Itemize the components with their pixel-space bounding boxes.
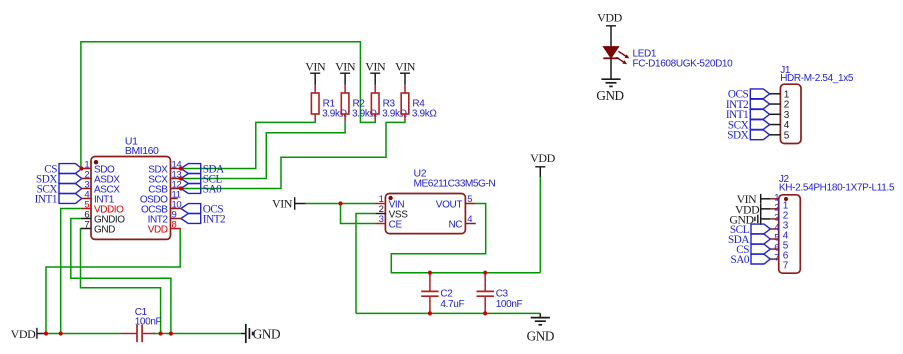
U2 pin 3 line (CE) (376, 223, 386, 225)
svg-text:HDR-M-2.54_1x5: HDR-M-2.54_1x5 (780, 73, 854, 84)
U1 pin 1 line (SDO) (81, 168, 91, 170)
U1 pin 3 line (ASCX) (81, 188, 91, 190)
voltage regulator U2 body (385, 194, 465, 234)
wire VIN port to U2 pin1 (306, 203, 376, 205)
J1 pin 2 line (770, 103, 781, 105)
LED light arrows (618, 51, 625, 56)
svg-text:BMI160: BMI160 (125, 145, 159, 157)
capacitor C3 (484, 273, 486, 292)
junction dot GND rail 1 (159, 331, 163, 335)
svg-text:INT2: INT2 (203, 213, 225, 225)
U1 pin 6 line (GNDIO) (81, 218, 91, 220)
ground symbol (under C3) (539, 313, 541, 317)
wire U2 VSS to GND rail (356, 214, 376, 314)
J2 pin 6 line (770, 248, 778, 250)
junction dot CS / U1 pin1 (79, 166, 83, 170)
J2 pin 1 port lead (761, 198, 771, 200)
svg-text:7: 7 (774, 253, 779, 264)
connector J1 body (780, 84, 801, 143)
U1 pin-1 marker dot (94, 160, 98, 164)
svg-text:7: 7 (783, 261, 789, 272)
junction dot C3 top (483, 271, 487, 275)
svg-text:7: 7 (84, 219, 89, 230)
wire SCL net: R2 bottom to U1 pin13 (181, 121, 345, 179)
svg-text:VDD: VDD (11, 327, 36, 341)
svg-text:100nF: 100nF (135, 316, 162, 327)
wire VOUT to VDD/cap rail (391, 204, 540, 273)
wire VDDIO: U1 pin5 to bottom VDD rail (61, 209, 81, 334)
svg-text:SDX: SDX (727, 130, 748, 142)
svg-text:SA0: SA0 (730, 254, 749, 266)
svg-text:5: 5 (467, 194, 472, 205)
svg-text:VOUT: VOUT (436, 199, 463, 210)
svg-text:SA0: SA0 (203, 183, 222, 195)
wire SDA net: R1 bottom to U1 pin14 (181, 121, 315, 169)
svg-text:VDD: VDD (530, 151, 555, 165)
svg-text:GND: GND (94, 225, 115, 236)
wire VIN branch to U2 pin3 (CE) (341, 204, 377, 224)
wire GND rail under U2 (356, 312, 540, 314)
J1 pin 5 line (770, 134, 781, 136)
connector J2 body (779, 195, 801, 273)
svg-text:100nF: 100nF (496, 299, 523, 310)
svg-text:VIN: VIN (395, 60, 416, 74)
J2 pin 1 line (770, 198, 778, 200)
LED D1 (LED1) (603, 47, 618, 58)
wire CS net: U1 pin1 to R3 bottom (top-left loop) (81, 42, 375, 169)
J2 pin 4 line (770, 228, 778, 230)
junction dot C3 bottom (483, 311, 487, 315)
svg-text:5: 5 (784, 130, 790, 141)
ground symbol (bottom rail, sideways) (241, 333, 246, 335)
U1 pin 10 line (OCSB) (171, 208, 181, 210)
net label SCL (U1 right) (181, 174, 201, 184)
resistor R4 (404, 85, 406, 94)
net label SCX (J1) (750, 120, 769, 130)
net label INT1 (U1 left) (59, 194, 82, 204)
net label SA0 (U1 right) (181, 184, 201, 194)
U1 pin 8 line (VDD) (171, 228, 181, 230)
U2 pin 2 line (VSS) (376, 213, 386, 215)
wire C1 to GND symbol (153, 333, 241, 335)
net label CS (J2) (751, 244, 770, 254)
U2 pin 5 line (VOUT) (465, 203, 475, 205)
net label OCS (J1) (750, 89, 769, 99)
svg-text:VIN: VIN (272, 197, 293, 211)
svg-text:GND: GND (527, 329, 554, 344)
U1 pin 2 line (ASDX) (81, 178, 91, 180)
svg-text:FC-D1608UGK-520D10: FC-D1608UGK-520D10 (633, 59, 734, 70)
net label SA0 (J2) (751, 254, 770, 264)
svg-text:VDD: VDD (597, 11, 622, 25)
capacitor C1 (122, 333, 137, 335)
J2 pin 2 line (770, 208, 778, 210)
wire GNDIO: U1 pin6 to bottom GND rail (71, 219, 171, 334)
wire VDD net: U1 pin8 down-left to bottom rail (46, 229, 180, 334)
svg-text:ME6211C33M5G-N: ME6211C33M5G-N (414, 179, 496, 190)
svg-text:GND: GND (253, 326, 280, 341)
U1 pin 5 line (VDDIO) (81, 208, 91, 210)
J2 pin 7 line (770, 258, 778, 260)
svg-text:C3: C3 (496, 288, 509, 299)
U1 pin 11 line (OSDO) (171, 198, 178, 200)
U1 pin 4 line (INT1) (81, 198, 91, 200)
junction dot GND rail 2 (169, 331, 173, 335)
resistor R1 (314, 85, 316, 94)
net label SCX (U1 left) (59, 184, 82, 194)
svg-text:C2: C2 (440, 288, 453, 299)
svg-text:GND: GND (596, 88, 623, 103)
svg-text:VIN: VIN (365, 60, 386, 74)
svg-text:4: 4 (467, 214, 472, 225)
junction dot at U1 right pin (179, 186, 183, 190)
svg-text:VIN: VIN (305, 60, 326, 74)
net label INT2 (U1 right) (181, 214, 201, 224)
net label OCS (U1 right) (181, 204, 201, 214)
svg-text:NC: NC (448, 219, 462, 230)
svg-text:U2: U2 (414, 167, 427, 179)
net label INT1 (J1) (750, 109, 769, 119)
U1 pin 7 line (GND) (81, 228, 91, 230)
junction dot C2 top (428, 271, 432, 275)
svg-text:VIN: VIN (335, 60, 356, 74)
svg-text:3.9kΩ: 3.9kΩ (412, 108, 438, 119)
junction dot at U1 right pin (179, 176, 183, 180)
wire SA0 net: R4 bottom to U1 pin12 (181, 121, 405, 189)
ground symbol (LED) (601, 78, 620, 80)
U2 pin-1 marker dot (388, 196, 392, 200)
J2 pin 3 port lead (761, 218, 771, 220)
junction dot C2 bottom (428, 311, 432, 315)
net label CS (U1 left) (59, 164, 82, 174)
net label SDX (U1 left) (59, 174, 82, 184)
J2 pin-1 marker dot (784, 197, 788, 201)
J2 pin 5 line (770, 238, 778, 240)
svg-text:8: 8 (172, 219, 177, 230)
junction dot at U1 right pin (179, 166, 183, 170)
junction dot VIN branch (338, 201, 342, 205)
op-amp U1 body (BMI160 rectangle) (91, 157, 171, 240)
capacitor C2 (429, 273, 431, 292)
wire VDD rail to C1 (44, 333, 122, 335)
net label SDA (U1 right) (181, 164, 201, 174)
U1 pin 14 line (SDX) (171, 168, 181, 170)
U1 pin 9 line (INT2) (171, 218, 181, 220)
net label SDA (J2) (751, 234, 770, 244)
net label SCL (J2) (751, 224, 770, 234)
U1 pin 13 line (SCX) (171, 178, 181, 180)
U2 pin 1 line (VIN) (376, 203, 386, 205)
svg-text:3: 3 (379, 214, 384, 225)
U1 pin 12 line (CSB) (171, 188, 181, 190)
J2 pin 3 line (770, 218, 778, 220)
J1 pin 3 line (770, 113, 781, 115)
svg-text:INT1: INT1 (35, 193, 57, 205)
svg-text:4.7uF: 4.7uF (440, 299, 464, 310)
net label INT2 (J1) (750, 99, 769, 109)
junction dot VDD rail 1 (44, 331, 48, 335)
resistor R3 (374, 85, 376, 94)
junction dot VDD rail 2 (59, 331, 63, 335)
wire GND: U1 pin7 to bottom GND rail (81, 229, 161, 334)
wire VDD port down to cap rail (539, 177, 541, 273)
net label SDX (J1) (750, 130, 769, 140)
J1 pin 1 line (770, 93, 781, 95)
J2 pin 2 port lead (761, 208, 771, 210)
U2 pin 4 line (NC) (465, 223, 475, 225)
J1 pin 4 line (770, 124, 781, 126)
svg-text:CE: CE (389, 219, 403, 230)
resistor R2 (344, 85, 346, 94)
svg-text:VDD: VDD (148, 225, 168, 236)
svg-text:KH-2.54PH180-1X7P-L11.5: KH-2.54PH180-1X7P-L11.5 (779, 182, 895, 193)
